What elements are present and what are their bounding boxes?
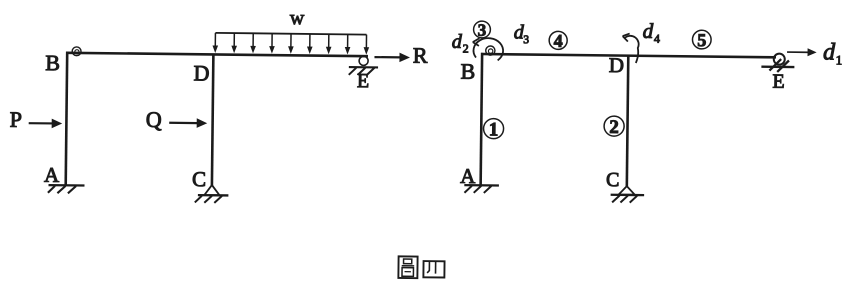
caption character SI right inner stroke <box>435 261 437 273</box>
hatch 3 at E (left frame) <box>367 68 375 75</box>
DOF rotation arc d2 at B <box>473 38 503 60</box>
svg-text:C: C <box>606 169 620 191</box>
distributed load arrow 7 <box>328 34 330 48</box>
load arrow Q shaft <box>169 122 198 125</box>
roller circle at E (right frame) <box>774 54 785 65</box>
svg-text:1: 1 <box>489 119 499 140</box>
DOF rotation arc d4 at D <box>624 36 639 63</box>
svg-text:D: D <box>193 60 209 85</box>
DOF arrow head d4 <box>623 34 630 42</box>
distributed load arrow 2 <box>233 33 235 47</box>
column A-B (right frame) <box>481 53 483 186</box>
pin support triangle at C (left frame) <box>204 185 219 195</box>
hatch 3 at C (left frame) <box>214 196 222 203</box>
distributed load arrow 4 <box>271 34 273 48</box>
svg-text:4: 4 <box>554 31 563 51</box>
wire beam B-D-E (left frame) <box>66 53 368 56</box>
distributed load w top line <box>215 33 366 35</box>
svg-text:4: 4 <box>654 32 660 46</box>
fixed support ground line at A (left frame) <box>48 184 84 187</box>
svg-text:A: A <box>44 163 60 187</box>
member number 4 circle <box>549 31 567 49</box>
caption character SI (four) outer box <box>423 261 444 277</box>
reaction arrow R shaft <box>374 56 400 59</box>
hatch 1 at C (left frame) <box>195 196 202 203</box>
hatch 1 at E (left frame) <box>349 68 357 75</box>
svg-text:2: 2 <box>609 117 619 138</box>
hatch 2 at A (left frame) <box>57 186 65 193</box>
DOF arrow d1 head <box>808 48 817 56</box>
caption character TU (figure) outer box <box>398 256 417 278</box>
svg-text:d: d <box>823 39 836 65</box>
reaction arrow R head <box>399 53 410 63</box>
distributed load arrow 1 <box>214 33 216 47</box>
ground line at C (left frame) <box>198 194 228 197</box>
roller hatch 2 at E (right frame) <box>777 60 789 72</box>
hatch 1 at C (right frame) <box>612 195 619 202</box>
hatch 2 at A (right frame) <box>474 186 481 193</box>
hatch 2 at E (left frame) <box>358 68 366 75</box>
svg-text:B: B <box>460 59 475 84</box>
caption character SI left inner stroke <box>427 261 429 273</box>
distributed load arrow 3 <box>252 33 254 47</box>
svg-text:2: 2 <box>463 41 469 55</box>
svg-text:3: 3 <box>478 21 487 40</box>
distributed load arrow 9 <box>365 35 367 49</box>
svg-text:3: 3 <box>523 34 529 46</box>
distributed load arrow 8 <box>347 34 349 48</box>
caption character TU lower box <box>402 268 413 277</box>
member number 2 circle <box>604 116 624 136</box>
column C-D (left frame) <box>212 54 213 185</box>
hatch 2 at C (right frame) <box>620 195 627 202</box>
caption character TU inner small box <box>404 259 412 264</box>
distributed load arrow 6 <box>309 34 311 48</box>
distributed load arrow 5 <box>290 34 292 48</box>
fixed support ground line at A (right frame) <box>464 184 499 187</box>
hinge circle at B (right frame) <box>486 46 495 55</box>
load arrow Q head <box>197 118 208 128</box>
pin support triangle at C (right frame) <box>619 186 635 195</box>
svg-text:1: 1 <box>836 52 843 67</box>
hatch 2 at C (left frame) <box>204 196 212 203</box>
svg-text:d: d <box>643 19 654 43</box>
svg-text:Q: Q <box>146 107 162 132</box>
member number 3 circle <box>473 21 490 38</box>
caption character TU lower inner tick <box>405 271 411 273</box>
member number 1 circle <box>483 119 503 139</box>
svg-text:C: C <box>192 167 206 191</box>
svg-text:5: 5 <box>697 30 706 50</box>
hatch 3 at A (right frame) <box>484 186 491 193</box>
ground line at C (right frame) <box>611 194 644 197</box>
column C-D (right frame) <box>627 56 628 187</box>
member number 5 circle <box>692 30 711 49</box>
hatch 3 at C (right frame) <box>630 196 637 203</box>
DOF arrow head d2 <box>473 38 480 46</box>
caption character TU middle bar <box>402 265 414 267</box>
svg-text:R: R <box>413 43 428 68</box>
roller circle at E (left frame) <box>359 56 368 65</box>
svg-text:A: A <box>460 164 476 188</box>
roller hatch 1 at E (right frame) <box>769 59 781 71</box>
DOF arrow d1 shaft <box>787 51 812 53</box>
svg-text:w: w <box>290 7 305 29</box>
hatch 3 at A (left frame) <box>68 186 76 193</box>
load arrow P head <box>52 119 63 129</box>
hinge circle at B (left frame) <box>72 47 81 56</box>
hatch 1 at A (left frame) <box>48 186 55 193</box>
svg-text:P: P <box>10 107 23 132</box>
svg-text:d: d <box>452 31 463 53</box>
roller ground line at E (right frame) <box>761 65 794 68</box>
svg-text:E: E <box>772 71 784 93</box>
roller ground line at E (left frame) <box>349 66 378 68</box>
svg-text:D: D <box>609 53 624 77</box>
svg-text:E: E <box>357 70 369 92</box>
load arrow P shaft <box>29 122 54 124</box>
column A-B (left frame) <box>66 52 68 186</box>
svg-text:B: B <box>45 50 60 75</box>
hatch 1 at A (right frame) <box>464 186 471 193</box>
wire beam B-D-E (right frame) <box>481 54 776 57</box>
